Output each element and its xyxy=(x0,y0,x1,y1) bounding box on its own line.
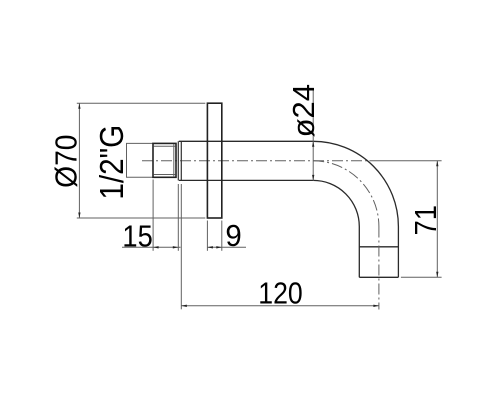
dimension 120 label xyxy=(258,277,302,311)
dimension 71 arrow bottom xyxy=(436,272,438,278)
dimension D24 arrow top xyxy=(312,141,314,147)
dimension 120 arrow right xyxy=(373,305,379,307)
svg-text:71: 71 xyxy=(409,205,443,235)
dimension D24 arrow bottom xyxy=(312,175,314,181)
thread 1/2"G nipple body xyxy=(153,143,176,177)
vertical tube right edge xyxy=(397,227,399,278)
bend outer arc xyxy=(313,141,398,226)
dimension 15 extension right xyxy=(177,184,179,251)
vertical centerline through outlet xyxy=(378,227,380,310)
dimension D24 line xyxy=(312,89,314,181)
dimension 71 extension bottom xyxy=(401,276,442,278)
thread root extension (thin box left of thread) xyxy=(127,143,154,177)
dimension 71 line xyxy=(436,161,438,277)
dimension 9 arrow right xyxy=(216,246,222,248)
wall flange xyxy=(207,103,221,218)
dimension 9 arrow left xyxy=(207,246,213,248)
dimension 120 extension left xyxy=(180,184,182,309)
dimension 15 arrow left xyxy=(153,246,159,248)
thread size label 1/2"G xyxy=(94,125,131,200)
svg-text:Ø70: Ø70 xyxy=(49,135,84,188)
dimension 9 extension right xyxy=(221,221,223,251)
dimension D70 line xyxy=(78,103,80,218)
dimension D24 label xyxy=(286,84,321,137)
spout tube bottom line xyxy=(179,179,313,181)
dimension 71 arrow top xyxy=(436,161,438,167)
dimension 71 label xyxy=(409,205,443,235)
svg-text:9: 9 xyxy=(225,219,241,253)
bend centerline arc xyxy=(313,161,379,227)
dimension 71 extension top xyxy=(370,160,442,162)
svg-text:120: 120 xyxy=(258,277,302,311)
dimension 15 extension left xyxy=(152,180,154,251)
vertical tube left edge xyxy=(358,227,360,278)
dimension 9 extension left xyxy=(206,221,208,251)
svg-text:ø24: ø24 xyxy=(286,84,321,137)
tube end line xyxy=(359,276,398,278)
dimension D70 extension top xyxy=(77,102,206,104)
dimension 15 label xyxy=(122,220,152,254)
dimension 9 line xyxy=(207,246,246,248)
dimension D70 label xyxy=(49,135,84,188)
dimension D70 arrow top xyxy=(78,103,80,109)
dimension 120 arrow left xyxy=(181,305,187,307)
dimension 120 line xyxy=(181,305,379,307)
dimension 15 arrow right xyxy=(173,246,179,248)
dimension 9 label xyxy=(225,219,241,253)
dimension 15 line xyxy=(122,246,181,248)
svg-text:1/2"G: 1/2"G xyxy=(94,125,131,200)
spout tube top line xyxy=(179,140,313,142)
aerator joint line xyxy=(359,246,398,248)
bend inner arc xyxy=(313,180,359,226)
dimension D70 extension bottom xyxy=(77,217,206,219)
centerline horizontal axis xyxy=(142,160,369,162)
svg-text:15: 15 xyxy=(122,220,152,254)
dimension D70 arrow bottom xyxy=(78,213,80,219)
shoulder face lines xyxy=(178,141,181,180)
